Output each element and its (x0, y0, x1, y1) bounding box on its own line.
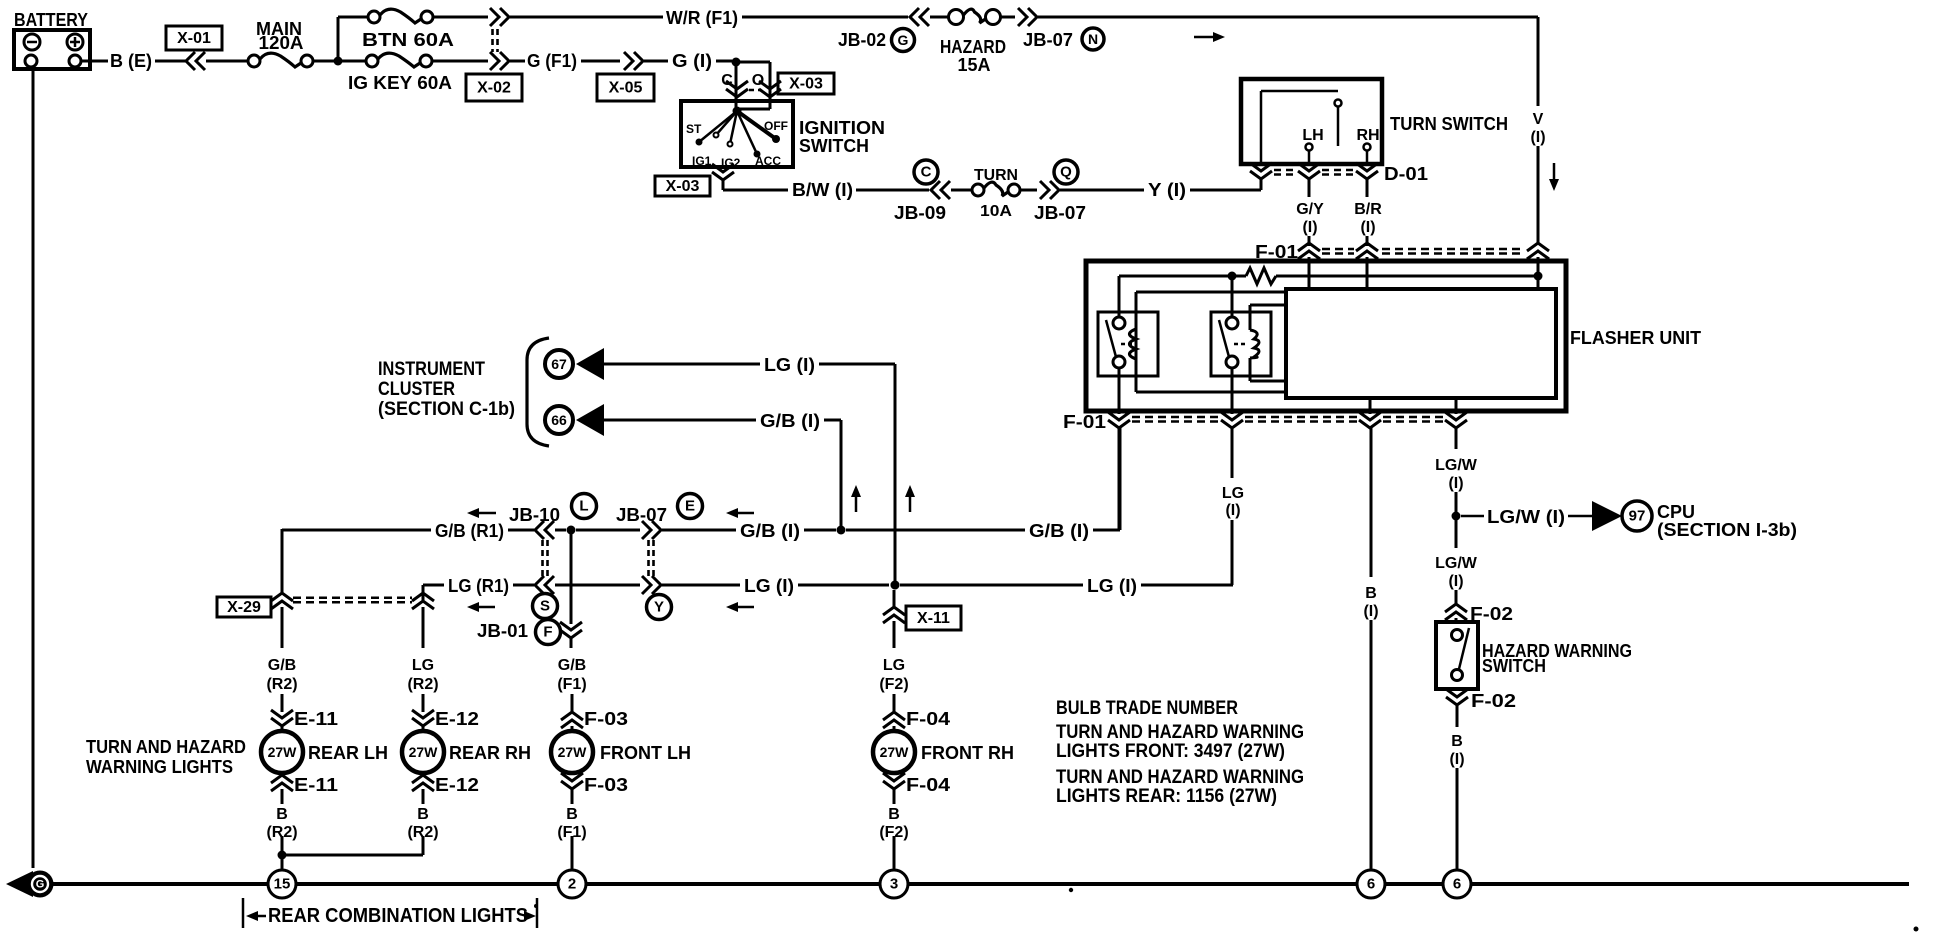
svg-text:(SECTION I-3b): (SECTION I-3b) (1657, 520, 1797, 540)
svg-text:JB-07: JB-07 (1034, 203, 1086, 223)
svg-text:B: B (888, 806, 900, 823)
svg-text:WARNING LIGHTS: WARNING LIGHTS (86, 757, 233, 777)
svg-text:LH: LH (1302, 127, 1323, 144)
svg-text:REAR COMBINATION LIGHTS: REAR COMBINATION LIGHTS (268, 905, 528, 927)
svg-text:G/B (R1): G/B (R1) (435, 521, 504, 541)
svg-text:W/R (F1): W/R (F1) (666, 8, 738, 28)
svg-text:BATTERY: BATTERY (14, 10, 88, 30)
svg-text:LIGHTS REAR: 1156 (27W): LIGHTS REAR: 1156 (27W) (1056, 786, 1277, 807)
svg-text:JB-02: JB-02 (838, 30, 886, 50)
svg-text:F-02: F-02 (1471, 691, 1516, 711)
svg-text:LG (R1): LG (R1) (448, 576, 509, 596)
svg-text:TURN: TURN (974, 167, 1018, 184)
svg-text:E-11: E-11 (294, 775, 338, 795)
svg-text:TURN SWITCH: TURN SWITCH (1390, 114, 1508, 134)
svg-text:(I): (I) (1449, 751, 1464, 768)
svg-text:Q: Q (1060, 164, 1072, 181)
svg-text:C: C (921, 164, 932, 181)
svg-text:Y (I): Y (I) (1148, 180, 1186, 200)
svg-text:(R2): (R2) (266, 676, 297, 693)
svg-text:JB-07: JB-07 (1023, 30, 1073, 50)
svg-text:OFF: OFF (764, 119, 788, 133)
svg-text:LG: LG (1222, 485, 1244, 502)
svg-text:B (E): B (E) (110, 51, 152, 71)
svg-text:FRONT LH: FRONT LH (600, 743, 691, 763)
svg-text:X-01: X-01 (177, 30, 211, 47)
svg-text:3: 3 (890, 876, 898, 893)
svg-text:27W: 27W (558, 744, 588, 760)
svg-text:G: G (36, 879, 45, 891)
svg-text:CPU: CPU (1657, 502, 1695, 522)
svg-text:B: B (417, 806, 429, 823)
svg-text:LG (I): LG (I) (744, 576, 794, 596)
svg-text:G (F1): G (F1) (527, 51, 577, 71)
svg-text:(F1): (F1) (557, 676, 586, 693)
svg-text:E: E (685, 498, 695, 515)
svg-text:F-04: F-04 (906, 709, 950, 729)
svg-text:X-05: X-05 (609, 80, 643, 97)
svg-text:X-03: X-03 (666, 178, 700, 195)
svg-text:X-11: X-11 (917, 610, 950, 627)
svg-text:HAZARD: HAZARD (940, 37, 1006, 57)
svg-text:(I): (I) (1302, 219, 1317, 236)
svg-text:G/B (I): G/B (I) (1029, 521, 1089, 541)
svg-text:X-29: X-29 (227, 599, 261, 616)
svg-text:F-03: F-03 (584, 775, 628, 795)
svg-text:E-12: E-12 (435, 709, 479, 729)
svg-text:10A: 10A (980, 203, 1012, 220)
svg-text:(F2): (F2) (879, 676, 908, 693)
svg-text:LG: LG (883, 657, 905, 674)
svg-text:G/B: G/B (558, 657, 586, 674)
svg-text:6: 6 (1453, 876, 1461, 893)
svg-text:N: N (1088, 31, 1098, 47)
svg-text:(R2): (R2) (407, 676, 438, 693)
svg-text:27W: 27W (409, 744, 439, 760)
svg-text:B/R: B/R (1354, 201, 1382, 218)
svg-text:ACC: ACC (755, 154, 781, 168)
svg-text:(SECTION C-1b): (SECTION C-1b) (378, 399, 515, 420)
svg-text:ST: ST (686, 122, 702, 136)
svg-text:G (I): G (I) (672, 51, 712, 71)
svg-text:BTN 60A: BTN 60A (362, 30, 454, 50)
svg-text:G: G (898, 32, 909, 48)
svg-text:LG (I): LG (I) (1087, 576, 1137, 596)
svg-text:X-02: X-02 (477, 80, 511, 97)
svg-text:(I): (I) (1225, 502, 1240, 519)
svg-text:6: 6 (1367, 876, 1375, 893)
svg-text:67: 67 (551, 356, 567, 372)
svg-text:G/Y: G/Y (1296, 201, 1324, 218)
svg-text:LG: LG (412, 657, 434, 674)
svg-text:B: B (1451, 733, 1463, 750)
svg-text:E-11: E-11 (294, 709, 338, 729)
svg-text:FRONT RH: FRONT RH (921, 743, 1014, 763)
svg-text:(I): (I) (1448, 475, 1463, 492)
svg-text:Y: Y (654, 599, 664, 616)
svg-text:IG1: IG1 (692, 154, 712, 168)
svg-text:(I): (I) (1448, 573, 1463, 590)
svg-text:B: B (566, 806, 578, 823)
svg-text:TURN AND HAZARD WARNING: TURN AND HAZARD WARNING (1056, 722, 1304, 743)
svg-text:LG/W: LG/W (1435, 555, 1478, 572)
svg-text:F-03: F-03 (584, 709, 628, 729)
svg-text:JB-07: JB-07 (616, 505, 667, 525)
svg-text:X-03: X-03 (789, 76, 823, 93)
svg-text:S: S (540, 598, 550, 615)
svg-text:O: O (752, 72, 764, 89)
svg-text:27W: 27W (268, 744, 298, 760)
svg-text:JB-10: JB-10 (509, 505, 560, 525)
svg-text:120A: 120A (259, 33, 304, 53)
svg-text:B: B (276, 806, 288, 823)
svg-text:JB-09: JB-09 (894, 203, 946, 223)
svg-text:B/W (I): B/W (I) (792, 180, 853, 200)
svg-text:REAR LH: REAR LH (308, 743, 388, 763)
svg-text:L: L (579, 498, 588, 515)
svg-text:LG/W: LG/W (1435, 457, 1478, 474)
svg-text:FLASHER UNIT: FLASHER UNIT (1570, 328, 1701, 348)
svg-text:27W: 27W (880, 744, 910, 760)
svg-text:E-12: E-12 (435, 775, 479, 795)
svg-text:F-01: F-01 (1063, 412, 1106, 432)
svg-text:IG KEY 60A: IG KEY 60A (348, 73, 452, 93)
svg-text:TURN AND HAZARD: TURN AND HAZARD (86, 737, 246, 757)
svg-text:SWITCH: SWITCH (799, 136, 869, 156)
svg-text:(I): (I) (1360, 219, 1375, 236)
svg-text:2: 2 (568, 876, 576, 893)
svg-text:JB-01: JB-01 (477, 621, 528, 641)
svg-text:D-01: D-01 (1384, 164, 1428, 184)
svg-text:(I): (I) (1530, 129, 1545, 146)
svg-text:97: 97 (1629, 508, 1646, 525)
svg-text:LG/W (I): LG/W (I) (1487, 507, 1565, 527)
svg-text:BULB TRADE NUMBER: BULB TRADE NUMBER (1056, 698, 1238, 719)
svg-text:CLUSTER: CLUSTER (378, 379, 455, 400)
svg-text:LG (I): LG (I) (764, 355, 815, 375)
svg-text:G/B (I): G/B (I) (760, 411, 820, 431)
svg-text:TURN AND HAZARD WARNING: TURN AND HAZARD WARNING (1056, 767, 1304, 788)
svg-text:RH: RH (1356, 127, 1379, 144)
svg-text:V: V (1533, 111, 1544, 128)
svg-text:INSTRUMENT: INSTRUMENT (378, 359, 485, 380)
svg-text:IGNITION: IGNITION (799, 118, 885, 138)
svg-text:(I): (I) (1363, 603, 1378, 620)
svg-text:LIGHTS FRONT: 3497 (27W): LIGHTS FRONT: 3497 (27W) (1056, 741, 1285, 762)
svg-text:G/B (I): G/B (I) (740, 521, 800, 541)
svg-text:F: F (543, 624, 552, 641)
svg-text:G/B: G/B (268, 657, 296, 674)
svg-text:REAR RH: REAR RH (449, 743, 531, 763)
svg-text:15: 15 (274, 876, 291, 893)
svg-text:15A: 15A (958, 55, 991, 75)
svg-text:SWITCH: SWITCH (1482, 656, 1546, 676)
svg-text:F-04: F-04 (906, 775, 950, 795)
svg-text:B: B (1365, 585, 1377, 602)
svg-text:66: 66 (551, 412, 567, 428)
